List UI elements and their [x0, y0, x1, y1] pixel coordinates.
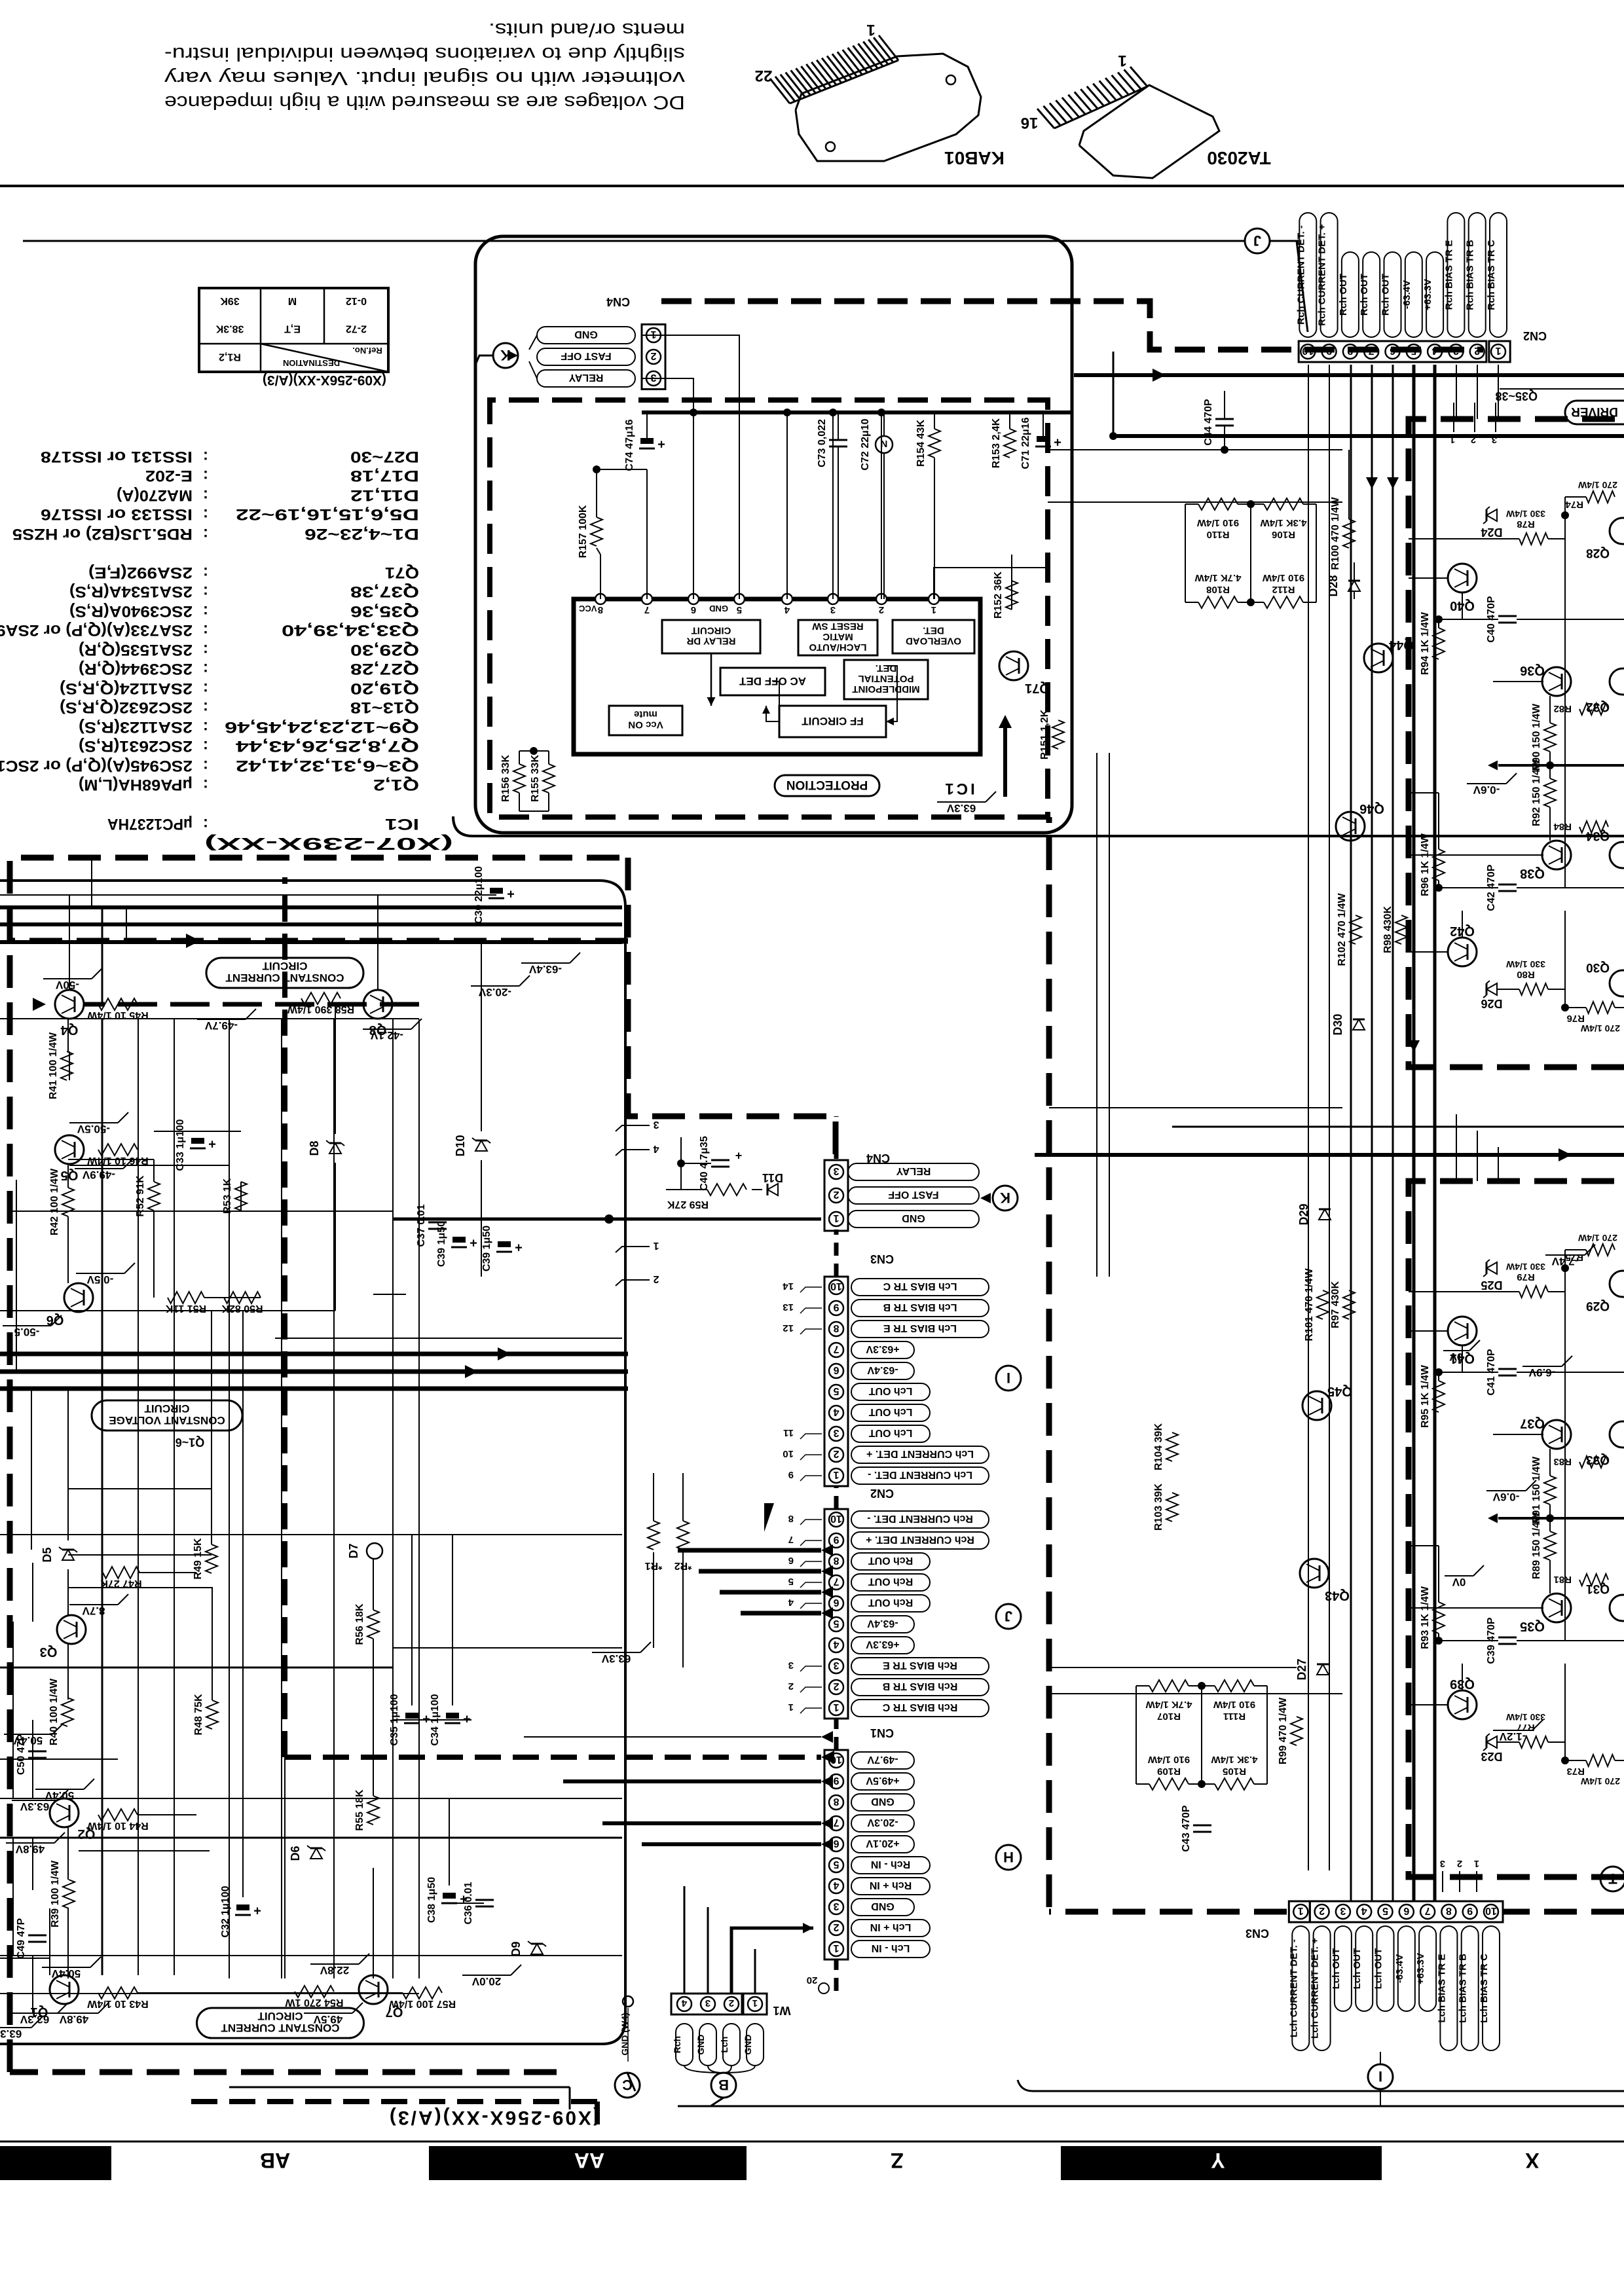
svg-text:R110: R110 — [1206, 529, 1229, 540]
node J and bus — [23, 228, 1308, 332]
svg-text::: : — [203, 776, 208, 793]
svg-text:Rch CURRENT DET. +: Rch CURRENT DET. + — [866, 1534, 974, 1545]
svg-text:4: 4 — [784, 604, 790, 615]
transistor Q71 — [999, 651, 1050, 695]
svg-text:POTENTIAL: POTENTIAL — [858, 673, 914, 684]
svg-text:Rch OUT: Rch OUT — [1380, 274, 1392, 316]
GND W4 — [619, 1996, 633, 2062]
svg-text:10: 10 — [830, 1281, 842, 1292]
svg-text:7: 7 — [833, 1817, 839, 1828]
svg-text:Q29: Q29 — [1586, 1299, 1610, 1313]
svg-text::: : — [203, 602, 208, 620]
svg-text:slightly due to variations bet: slightly due to variations between indiv… — [164, 43, 685, 64]
driver voltage callouts — [1443, 773, 1595, 1743]
svg-text:K: K — [1000, 1190, 1010, 1206]
svg-text:270 1/4W: 270 1/4W — [1578, 1233, 1617, 1243]
svg-text:M: M — [288, 295, 297, 306]
svg-text:8: 8 — [833, 1322, 839, 1334]
svg-text:2: 2 — [1457, 1858, 1462, 1869]
svg-text:1: 1 — [1474, 1858, 1479, 1869]
svg-text:5: 5 — [833, 1618, 839, 1629]
svg-text:-50.5: -50.5 — [14, 1326, 40, 1338]
pin 20 pad — [807, 1975, 829, 1994]
svg-text:3: 3 — [653, 1119, 659, 1130]
resistor R44 — [35, 1779, 149, 1831]
resistor R48 — [193, 1694, 218, 1736]
parts list — [0, 448, 453, 854]
W1 wiring — [684, 1886, 813, 1994]
svg-text:3: 3 — [830, 604, 836, 615]
svg-text:R51 11K: R51 11K — [165, 1303, 206, 1314]
svg-text:63.3V: 63.3V — [946, 802, 976, 814]
svg-text:10: 10 — [1485, 1905, 1497, 1916]
svg-text:49.8V: 49.8V — [59, 2013, 88, 2026]
transistor Q4 — [43, 968, 149, 1037]
Lch driver dashed box — [1409, 1181, 1624, 1877]
svg-text:R40 100 1/4W: R40 100 1/4W — [48, 1678, 60, 1745]
svg-text:R73: R73 — [1566, 1766, 1585, 1777]
IC package KAB01 — [755, 21, 1005, 168]
svg-text:9: 9 — [788, 1469, 794, 1480]
svg-text:OVERLOAD: OVERLOAD — [906, 636, 961, 647]
svg-text:voltmeter with no signal input: voltmeter with no signal input. Values m… — [164, 67, 685, 88]
svg-text::: : — [203, 564, 208, 581]
capacitor C36 — [463, 1882, 494, 1924]
svg-text:D8: D8 — [308, 1140, 321, 1156]
CN4 signal tags — [537, 327, 635, 387]
svg-text:Q3: Q3 — [40, 1645, 58, 1659]
svg-text:2SC3944(Q,R): 2SC3944(Q,R) — [79, 660, 193, 678]
svg-text:63.3V: 63.3V — [0, 2028, 22, 2040]
callout -20.3V — [471, 975, 530, 998]
supply vertical wires — [33, 907, 419, 2013]
svg-text:2SC2632(Q,R,S): 2SC2632(Q,R,S) — [60, 699, 193, 716]
svg-text:FAST OFF: FAST OFF — [561, 350, 612, 361]
constant current circuit label lower — [197, 2008, 364, 2038]
resistor R43 — [42, 1957, 149, 2009]
svg-text:5: 5 — [833, 1385, 839, 1396]
diode D10 — [454, 1135, 490, 1156]
svg-text:R107: R107 — [1157, 1711, 1181, 1722]
svg-text:Q7,8,25,26,43,44: Q7,8,25,26,43,44 — [235, 737, 419, 755]
svg-text:38.3K: 38.3K — [215, 323, 244, 335]
svg-text:Lch OUT: Lch OUT — [1373, 1948, 1384, 1990]
svg-text:7: 7 — [788, 1534, 794, 1545]
svg-text:R49 15K: R49 15K — [193, 1538, 204, 1580]
capacitor C74 — [624, 412, 665, 471]
svg-text:C39 1μ50: C39 1μ50 — [436, 1221, 447, 1267]
svg-text:+: + — [470, 1235, 477, 1250]
supply horizontal wires — [0, 895, 683, 1993]
svg-text:GND: GND — [902, 1212, 925, 1224]
svg-text:5: 5 — [1382, 1905, 1388, 1916]
svg-text:2-72: 2-72 — [346, 323, 367, 335]
protection wiring — [597, 335, 1048, 610]
svg-text:R154 43K: R154 43K — [915, 420, 927, 467]
svg-text:J: J — [1005, 1608, 1012, 1624]
svg-text:D9: D9 — [509, 1941, 523, 1956]
63.3V feed arrow — [937, 715, 1012, 814]
svg-text:10: 10 — [783, 1448, 794, 1459]
resistors R155 R156 — [500, 747, 555, 811]
svg-text:GND: GND — [574, 329, 598, 340]
svg-text:Q35: Q35 — [1520, 1619, 1545, 1633]
svg-text:8: 8 — [1446, 1905, 1452, 1916]
svg-text:910 1/4W: 910 1/4W — [1262, 572, 1304, 583]
svg-text:1: 1 — [653, 1240, 659, 1251]
svg-text:63.3V: 63.3V — [20, 1800, 49, 1813]
svg-text:GND: GND — [871, 1901, 895, 1912]
resistor R42 — [49, 1168, 74, 1235]
capacitor C35 — [389, 1694, 430, 1745]
svg-text:IC1: IC1 — [385, 815, 419, 833]
capacitor C49 — [16, 1918, 46, 1959]
connector CN3 Lch driver — [1289, 1901, 1503, 1922]
svg-text:2: 2 — [788, 1681, 794, 1692]
svg-text:-49.7V: -49.7V — [867, 1754, 898, 1765]
node I bottom — [1246, 1927, 1393, 2106]
label PROTECTION IC1 — [775, 775, 975, 797]
svg-text:Q9~12,23,24,45,46: Q9~12,23,24,45,46 — [225, 718, 419, 736]
capacitor C30 — [473, 866, 515, 924]
svg-text:D1~4,23~26: D1~4,23~26 — [304, 525, 419, 543]
svg-text:D10: D10 — [454, 1135, 467, 1156]
svg-text:910 1/4W: 910 1/4W — [1147, 1754, 1190, 1765]
svg-text:9: 9 — [833, 1534, 839, 1545]
svg-text::: : — [203, 505, 208, 523]
capacitor C37 — [416, 1204, 447, 1247]
svg-text:D5: D5 — [41, 1547, 54, 1562]
svg-text:CIRCUIT: CIRCUIT — [692, 625, 731, 636]
svg-text:Lch CURRENT DET. -: Lch CURRENT DET. - — [868, 1469, 972, 1480]
svg-text:R152 36K: R152 36K — [993, 572, 1004, 619]
svg-text:Q37,38: Q37,38 — [350, 583, 419, 600]
svg-text:R105: R105 — [1223, 1766, 1246, 1777]
svg-text:Rch BIAS TR B: Rch BIAS TR B — [883, 1681, 958, 1692]
svg-text:8: 8 — [833, 1796, 839, 1807]
svg-text:3: 3 — [833, 1901, 839, 1912]
svg-text:TA2030: TA2030 — [1207, 148, 1271, 168]
svg-text:CONSTANT VOLTAGE: CONSTANT VOLTAGE — [109, 1414, 225, 1427]
svg-text:+63.3V: +63.3V — [1415, 1953, 1426, 1984]
svg-text:2SA1123(R,S): 2SA1123(R,S) — [79, 718, 193, 736]
resistor R41 — [48, 1032, 73, 1099]
CN4c tag FAST OFF — [848, 1187, 979, 1204]
output bus lines — [1074, 352, 1624, 440]
svg-text:R100 470 1/4W: R100 470 1/4W — [1330, 497, 1341, 570]
svg-text:0V: 0V — [1449, 1351, 1463, 1363]
transistor Q7 — [310, 1954, 403, 2019]
svg-text:1: 1 — [1298, 1905, 1304, 1916]
svg-text:Q29,30: Q29,30 — [350, 641, 419, 659]
connector CN3 center — [824, 1252, 1021, 1486]
svg-text:R109: R109 — [1157, 1766, 1181, 1777]
transistor Q8 — [197, 990, 422, 1042]
svg-text:2: 2 — [833, 1448, 839, 1459]
callout 63.3V center — [592, 1642, 651, 1665]
wire stub numbers — [764, 1281, 822, 1713]
svg-text:E-202: E-202 — [145, 467, 193, 484]
Lch dashed bus — [1049, 817, 1624, 1912]
svg-text:D25: D25 — [1481, 1279, 1502, 1292]
capacitor C32 — [220, 1886, 261, 1937]
Lch driver feed components — [1153, 1203, 1355, 1764]
connector CN4 center — [824, 1152, 890, 1231]
svg-text:Rch BIAS TR B: Rch BIAS TR B — [1465, 240, 1476, 310]
svg-text:D5,6,15,16,19~22: D5,6,15,16,19~22 — [236, 505, 419, 523]
svg-text:8: 8 — [788, 1513, 794, 1524]
svg-text:Ref.No.: Ref.No. — [352, 346, 382, 355]
connector chain dashed links — [834, 1116, 839, 1991]
CN2 signal tags — [1295, 213, 1507, 337]
svg-text:R79: R79 — [1517, 1271, 1535, 1283]
svg-text:Lch BIAS TR E: Lch BIAS TR E — [1436, 1954, 1447, 2022]
svg-text:Q37: Q37 — [1520, 1416, 1545, 1430]
transistor Q2 — [6, 1798, 95, 1855]
transistor Q1 — [0, 1975, 109, 2040]
svg-text:Q38: Q38 — [1520, 866, 1545, 881]
svg-text:Rch BIAS TR C: Rch BIAS TR C — [1486, 240, 1497, 310]
svg-text:D27~30: D27~30 — [350, 448, 419, 465]
svg-text:Lch OUT: Lch OUT — [868, 1427, 912, 1438]
protection dashed box — [490, 400, 1048, 817]
svg-text:C37 0.01: C37 0.01 — [416, 1204, 427, 1247]
svg-text:Rch CURRENT DET. -: Rch CURRENT DET. - — [867, 1513, 973, 1524]
diode D5 resistors R47 R49 — [41, 1538, 217, 1589]
svg-text:7: 7 — [833, 1576, 839, 1587]
svg-text:R98 430K: R98 430K — [1382, 906, 1393, 953]
transistor Q3 — [40, 1594, 128, 1659]
transistor Q30 edge — [1586, 960, 1624, 996]
svg-text:6: 6 — [833, 1838, 839, 1849]
svg-text:2SA992(F,E): 2SA992(F,E) — [88, 564, 193, 581]
svg-text:1: 1 — [1118, 52, 1126, 69]
svg-text:R91 150 1/4W: R91 150 1/4W — [1531, 1456, 1542, 1523]
svg-text:Q1~6: Q1~6 — [175, 1436, 205, 1449]
svg-text:2: 2 — [650, 350, 656, 361]
svg-text::: : — [203, 699, 208, 716]
resistor R56 — [354, 1603, 379, 1645]
svg-text:-0.6V: -0.6V — [1492, 1491, 1519, 1503]
svg-text:R156 33K: R156 33K — [500, 755, 511, 802]
svg-text:330 1/4W: 330 1/4W — [1505, 509, 1545, 519]
svg-text:(X09-256X-XX)(A/3): (X09-256X-XX)(A/3) — [263, 373, 386, 388]
svg-text:Q33,34,39,40: Q33,34,39,40 — [282, 621, 419, 639]
svg-text:1: 1 — [1495, 345, 1501, 356]
svg-text:2: 2 — [729, 1997, 734, 2009]
svg-text:I: I — [1006, 1370, 1010, 1386]
svg-text:C39 1μ50: C39 1μ50 — [481, 1226, 492, 1271]
svg-text:R101 470 1/4W: R101 470 1/4W — [1304, 1268, 1315, 1341]
protection supply bus — [642, 410, 1072, 414]
svg-text:Q19,20: Q19,20 — [350, 680, 419, 697]
svg-text:C73 0,022: C73 0,022 — [817, 419, 828, 467]
svg-text:3: 3 — [650, 372, 656, 383]
driver label and stubs — [1450, 389, 1624, 445]
svg-text:R111: R111 — [1223, 1711, 1246, 1722]
bottom long lines — [183, 2080, 1624, 2124]
svg-text:C50 47P: C50 47P — [16, 1734, 27, 1776]
svg-text:CN3: CN3 — [1246, 1927, 1269, 1940]
diode D8 — [308, 1140, 344, 1156]
svg-text::: : — [203, 448, 208, 465]
svg-text:8: 8 — [833, 1555, 839, 1566]
svg-text:ments or/and units.: ments or/and units. — [489, 19, 685, 40]
svg-text:-63.4V: -63.4V — [1394, 1954, 1405, 1983]
svg-text:IC1: IC1 — [942, 780, 974, 797]
svg-text:RESET SW: RESET SW — [811, 621, 863, 632]
svg-text:2SA1535(Q,R): 2SA1535(Q,R) — [79, 641, 193, 659]
connector CN2 center — [824, 1487, 1021, 1719]
svg-text:Rch OUT: Rch OUT — [1359, 274, 1370, 316]
svg-text:5: 5 — [788, 1576, 794, 1587]
svg-text:3: 3 — [1440, 1858, 1445, 1869]
svg-text:Rch BIAS TR C: Rch BIAS TR C — [882, 1702, 957, 1713]
svg-text:R53 1K: R53 1K — [222, 1178, 233, 1214]
svg-text:2SC3940A(R,S): 2SC3940A(R,S) — [69, 602, 193, 620]
svg-text:R56 18K: R56 18K — [354, 1603, 365, 1645]
svg-text:CN2: CN2 — [870, 1487, 894, 1500]
svg-text:3: 3 — [833, 1660, 839, 1671]
svg-text:39K: 39K — [220, 295, 240, 306]
svg-text:+63.3V: +63.3V — [1422, 279, 1433, 310]
resistor R40 — [4, 1678, 73, 1747]
W1 signal tags — [672, 2024, 764, 2066]
svg-text:2SC2631(R,S): 2SC2631(R,S) — [79, 737, 193, 755]
svg-text:+49.5V: +49.5V — [866, 1775, 899, 1786]
svg-text:R102 470 1/4W: R102 470 1/4W — [1337, 893, 1348, 966]
constant voltage circuit label — [92, 1400, 242, 1430]
svg-text:20: 20 — [807, 1975, 818, 1986]
svg-text:R112: R112 — [1272, 584, 1295, 595]
svg-text:1: 1 — [833, 1942, 839, 1954]
svg-text:D17,18: D17,18 — [350, 467, 419, 484]
node T — [1600, 1867, 1624, 1891]
svg-text:Rch BIAS TR E: Rch BIAS TR E — [1443, 240, 1454, 310]
svg-text:Q6: Q6 — [46, 1313, 64, 1327]
svg-text:R96 1K 1/4W: R96 1K 1/4W — [1420, 833, 1431, 896]
svg-text:+20.1V: +20.1V — [866, 1838, 899, 1849]
svg-text:Lch BIAS TR E: Lch BIAS TR E — [883, 1322, 957, 1334]
svg-text:R95 1K 1/4W: R95 1K 1/4W — [1420, 1364, 1431, 1428]
svg-text::: : — [203, 525, 208, 543]
svg-text:GND: GND — [709, 604, 728, 613]
svg-text:CN2: CN2 — [1523, 329, 1547, 342]
svg-text:4: 4 — [1361, 1905, 1367, 1916]
resistor R39 — [50, 1860, 75, 1927]
svg-text:-42.1V: -42.1V — [370, 1029, 403, 1042]
svg-text:4.7K 1/4W: 4.7K 1/4W — [1145, 1699, 1192, 1710]
svg-text:FAST OFF: FAST OFF — [888, 1189, 939, 1200]
svg-text:R46 10 1/4W: R46 10 1/4W — [86, 1155, 148, 1166]
resistor R154 — [915, 412, 940, 599]
svg-text:B: B — [718, 2077, 729, 2093]
svg-text:D11,12: D11,12 — [350, 486, 419, 504]
svg-text:H: H — [1003, 1849, 1014, 1865]
CN4c tag GND — [848, 1211, 979, 1228]
Lch driver circuitry — [1420, 1233, 1624, 1787]
svg-text:270 1/4W: 270 1/4W — [1580, 1776, 1620, 1787]
svg-text:-63.4V: -63.4V — [528, 963, 562, 975]
supply board dashed box — [10, 858, 836, 2072]
svg-text:R48 75K: R48 75K — [193, 1694, 204, 1736]
svg-text:R80: R80 — [1517, 969, 1535, 980]
capacitor C73 — [817, 412, 847, 599]
svg-text:20.0V: 20.0V — [471, 1975, 501, 1988]
svg-text:D30: D30 — [1331, 1013, 1344, 1035]
svg-text:R99 470 1/4W: R99 470 1/4W — [1278, 1697, 1289, 1764]
connector W1 — [671, 1994, 791, 2017]
long horizontal wires — [1035, 502, 1624, 1694]
svg-text:4.3K 1/4W: 4.3K 1/4W — [1211, 1754, 1258, 1765]
svg-text:-49.9V: -49.9V — [82, 1169, 115, 1181]
supply thick buses — [0, 1347, 628, 1389]
svg-text::: : — [203, 757, 208, 774]
capacitor C38 — [426, 1877, 468, 1923]
svg-text:R90 150 1/4W: R90 150 1/4W — [1531, 703, 1542, 771]
svg-text:R55 18K: R55 18K — [354, 1789, 365, 1831]
grid reference bar — [0, 2141, 1624, 2180]
svg-text:-63.4V: -63.4V — [867, 1364, 898, 1376]
svg-text:GND: GND — [695, 2034, 706, 2054]
svg-text:+: + — [253, 1903, 261, 1918]
svg-text:D23: D23 — [1481, 1750, 1502, 1763]
svg-text:16: 16 — [1021, 114, 1039, 132]
svg-text:DESTINATION: DESTINATION — [283, 358, 340, 368]
svg-text:2SC945(A)(Q,P) or 2SC1: 2SC945(A)(Q,P) or 2SC1 — [0, 757, 193, 774]
svg-text:49.5V: 49.5V — [313, 2013, 342, 2026]
svg-text:8: 8 — [598, 604, 603, 615]
svg-text:R78: R78 — [1517, 519, 1535, 530]
supply board solid outline — [0, 881, 625, 2044]
svg-text:R103 39K: R103 39K — [1153, 1484, 1164, 1531]
board code label — [388, 2107, 600, 2128]
svg-text:7: 7 — [833, 1343, 839, 1355]
svg-text:GND: GND — [871, 1796, 895, 1807]
svg-text:W1: W1 — [773, 2004, 791, 2017]
svg-text:Rch OUT: Rch OUT — [868, 1597, 913, 1608]
svg-text:Rch CURRENT DET. +: Rch CURRENT DET. + — [1317, 224, 1328, 326]
svg-text:DC voltages are as measured wi: DC voltages are as measured with a high … — [164, 92, 685, 113]
svg-text:Lch OUT: Lch OUT — [1331, 1948, 1342, 1990]
capacitor C72 — [860, 412, 893, 599]
svg-text:Q4: Q4 — [60, 1023, 79, 1037]
svg-text:CN1: CN1 — [870, 1726, 894, 1740]
svg-text:Lch - IN: Lch - IN — [872, 1942, 910, 1954]
svg-text:1: 1 — [752, 1997, 758, 2009]
connector CN1 center — [824, 1726, 1021, 1959]
svg-text:2: 2 — [833, 1681, 839, 1692]
svg-text:(X07-239X-XX): (X07-239X-XX) — [204, 834, 453, 854]
svg-text:4: 4 — [681, 1997, 687, 2009]
svg-text:R81: R81 — [1553, 1574, 1572, 1585]
callout -50.5 — [3, 1315, 62, 1338]
svg-text:910 1/4W: 910 1/4W — [1196, 517, 1239, 528]
node K center — [980, 1186, 1018, 1211]
resistors R1 R2 — [645, 1521, 692, 1571]
svg-text:+: + — [735, 1149, 743, 1162]
svg-text:270 1/4W: 270 1/4W — [1580, 1023, 1620, 1034]
svg-text:9: 9 — [833, 1775, 839, 1786]
svg-text:R42 100 1/4W: R42 100 1/4W — [49, 1168, 60, 1235]
svg-text:63.3V: 63.3V — [20, 2013, 49, 2026]
svg-text:μPC1237HA: μPC1237HA — [107, 815, 193, 833]
svg-text:2SA1534A(R,S): 2SA1534A(R,S) — [69, 583, 193, 600]
destination table — [199, 288, 388, 388]
svg-text:910 1/4W: 910 1/4W — [1213, 1699, 1255, 1710]
svg-text:R39 100 1/4W: R39 100 1/4W — [50, 1860, 61, 1927]
Rch driver dashed box — [1409, 419, 1624, 1067]
